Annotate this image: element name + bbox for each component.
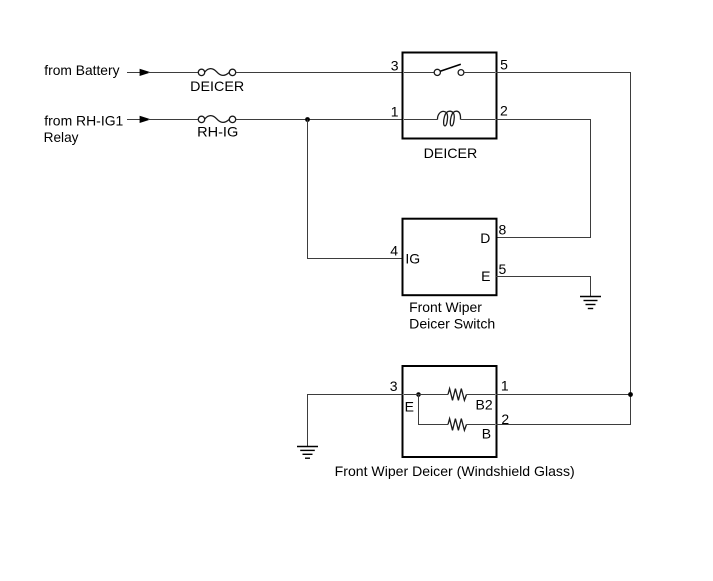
svg-text:DEICER: DEICER — [190, 78, 244, 94]
svg-text:5: 5 — [499, 261, 507, 277]
fuse DEICER — [198, 69, 235, 76]
label from Battery — [44, 62, 119, 78]
pin B label deicer — [482, 426, 491, 442]
pin 1 label deicer — [501, 377, 509, 393]
fuse RH-IG — [198, 116, 235, 123]
svg-text:3: 3 — [390, 378, 398, 394]
wire battery lead — [127, 72, 141, 74]
svg-text:Front Wiper Deicer (Windshield: Front Wiper Deicer (Windshield Glass) — [335, 463, 575, 479]
label from RH-IG1 Relay — [44, 112, 124, 144]
wire relay pin 5 to junction at deicer — [496, 73, 631, 395]
label RH-IG fuse value — [197, 124, 238, 140]
wire resistor B to pin 2 — [467, 424, 496, 426]
svg-text:Front Wiper: Front Wiper — [409, 299, 482, 315]
svg-text:from Battery: from Battery — [44, 62, 119, 78]
pin 3 label deicer — [390, 378, 398, 394]
relay switch contact — [404, 64, 495, 75]
svg-text:Deicer Switch: Deicer Switch — [409, 315, 495, 331]
svg-text:E: E — [405, 399, 414, 415]
svg-text:DEICER: DEICER — [424, 145, 478, 161]
pin B2 label deicer — [476, 397, 493, 413]
wire deicer pin 2 B to junction — [496, 395, 631, 425]
svg-text:IG: IG — [405, 251, 420, 267]
svg-text:4: 4 — [390, 242, 398, 258]
switch box Front Wiper Deicer Switch — [403, 219, 497, 296]
pin 1 label relay — [391, 103, 399, 119]
arrowhead RH-IG1 feed — [140, 116, 151, 123]
wire arrow to fuse RH-IG — [148, 119, 198, 121]
wire relay pin 2 to switch pin 8 — [496, 120, 591, 238]
svg-text:8: 8 — [499, 221, 507, 237]
pin 4 label switch — [390, 242, 398, 258]
wire switch pin 5 E to ground — [496, 277, 591, 297]
wire RH-IG lead — [127, 119, 141, 121]
wire deicer pin 1 B2 to junction — [496, 394, 631, 396]
ground at switch E — [580, 297, 601, 309]
label DEICER fuse value — [190, 78, 244, 94]
svg-text:3: 3 — [391, 58, 399, 74]
label Front Wiper Deicer (Windshield Glass) — [335, 463, 575, 479]
svg-text:5: 5 — [500, 57, 508, 73]
label DEICER relay — [424, 145, 478, 161]
wire junction down to switch pin 4 — [308, 120, 404, 259]
resistor B2 — [448, 389, 467, 401]
pin 5 label relay — [500, 57, 508, 73]
arrowhead battery feed — [140, 69, 151, 76]
junction node B2 B feed — [628, 392, 633, 397]
wire fuse RH-IG to relay pin 1 — [236, 119, 402, 121]
svg-text:B: B — [482, 426, 491, 442]
relay coil — [404, 111, 495, 126]
svg-text:D: D — [480, 230, 490, 246]
pin E label switch — [481, 268, 490, 284]
wire deicer pin 3 to ground — [308, 395, 404, 447]
wire resistor B2 to pin 1 — [467, 394, 496, 396]
relay DEICER box — [403, 53, 497, 139]
svg-text:1: 1 — [391, 103, 399, 119]
ground at deicer pin 3 — [297, 447, 318, 459]
label Front Wiper Deicer Switch — [409, 299, 495, 331]
svg-text:RH-IG: RH-IG — [197, 124, 238, 140]
wire E to resistor B2 — [404, 394, 448, 396]
resistor B — [448, 419, 467, 431]
svg-text:2: 2 — [500, 103, 508, 119]
pin D label switch — [480, 230, 490, 246]
svg-text:Relay: Relay — [44, 129, 79, 145]
pin 5 label switch — [499, 261, 507, 277]
junction node IG branch — [305, 117, 310, 122]
pin 8 label switch — [499, 221, 507, 237]
wire arrow to fuse DEICER — [148, 72, 198, 74]
node E junction dot — [416, 392, 421, 397]
pin IG label switch — [405, 251, 420, 267]
svg-text:B2: B2 — [476, 397, 493, 413]
svg-text:1: 1 — [501, 377, 509, 393]
pin 3 label relay — [391, 58, 399, 74]
pin 2 label deicer — [501, 411, 509, 427]
deicer element box — [403, 366, 497, 457]
pin E label deicer — [405, 399, 414, 415]
wire E branch down to resistor B — [419, 395, 449, 425]
wire fuse DEICER to relay pin 3 — [236, 72, 402, 74]
svg-text:from RH-IG1: from RH-IG1 — [44, 112, 123, 128]
pin 2 label relay — [500, 103, 508, 119]
svg-text:E: E — [481, 268, 490, 284]
